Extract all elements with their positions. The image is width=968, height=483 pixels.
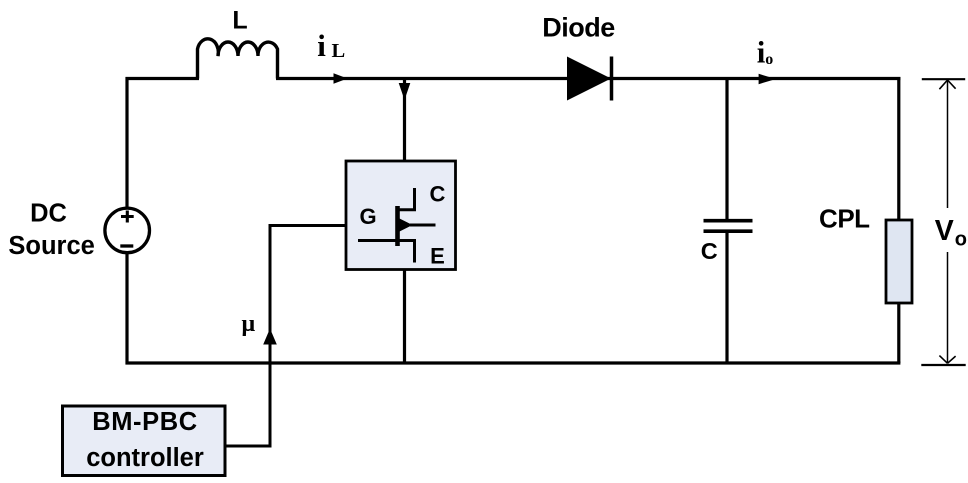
wire right branch <box>897 77 900 221</box>
arrow io <box>759 74 776 84</box>
DC source V1 <box>105 208 150 253</box>
wire controller output vertical <box>269 224 272 448</box>
Vo dimension line lower part <box>947 252 949 364</box>
IGBT box U1 <box>346 161 456 270</box>
svg-text:DC: DC <box>30 200 67 228</box>
bottom wire <box>126 361 901 364</box>
wire switch top lead <box>403 79 406 162</box>
wire CPL bottom lead <box>897 303 900 363</box>
Vo arrow up <box>939 80 955 89</box>
svg-text:Diode: Diode <box>542 13 615 43</box>
wire top-left segment <box>126 77 200 80</box>
inductor L <box>198 39 278 79</box>
svg-text:L: L <box>332 40 346 62</box>
IGBT collector branch <box>398 188 415 210</box>
svg-text:CPL: CPL <box>819 204 870 234</box>
IGBT gate bar <box>395 206 400 246</box>
Vo dimension bottom tick <box>921 364 965 366</box>
svg-text:G: G <box>359 204 376 229</box>
wire switch bottom lead <box>403 269 406 363</box>
left vertical wire lower <box>125 252 128 365</box>
CPL resistor <box>886 220 912 303</box>
left vertical wire upper <box>125 77 128 209</box>
Vo dimension top tick <box>922 78 965 80</box>
svg-text:C: C <box>701 238 718 264</box>
diode D <box>567 57 611 101</box>
svg-text:Source: Source <box>8 232 94 260</box>
wire to gate <box>269 224 346 227</box>
svg-text:μ: μ <box>242 311 256 337</box>
arrow iL <box>334 73 348 83</box>
arrow mu <box>263 329 277 345</box>
diode cathode bar <box>610 57 614 101</box>
svg-text:V: V <box>935 215 954 247</box>
plus sign <box>121 211 134 223</box>
svg-text:i: i <box>317 28 326 63</box>
wire top main segment <box>276 77 900 80</box>
Vo dimension line <box>947 80 949 208</box>
svg-text:C: C <box>430 182 446 207</box>
arrow into switch <box>399 83 411 100</box>
IGBT gate-emitter horizontal <box>358 239 415 242</box>
svg-text:controller: controller <box>86 444 204 472</box>
svg-text:o: o <box>765 51 773 68</box>
Vo arrow down <box>939 356 955 364</box>
wire capacitor branch top <box>725 79 728 221</box>
wire controller output horizontal <box>225 445 270 448</box>
svg-text:L: L <box>232 7 247 35</box>
capacitor C plates <box>704 221 753 232</box>
IGBT body arrow <box>399 218 413 232</box>
minus sign <box>120 244 133 247</box>
wire capacitor branch bottom <box>725 232 728 363</box>
IGBT body lead <box>410 224 436 227</box>
IGBT emitter lead <box>413 239 416 263</box>
svg-text:BM-PBC: BM-PBC <box>92 408 198 436</box>
svg-text:E: E <box>430 244 445 269</box>
BM-PBC controller box <box>63 406 226 476</box>
svg-text:o: o <box>955 229 967 251</box>
